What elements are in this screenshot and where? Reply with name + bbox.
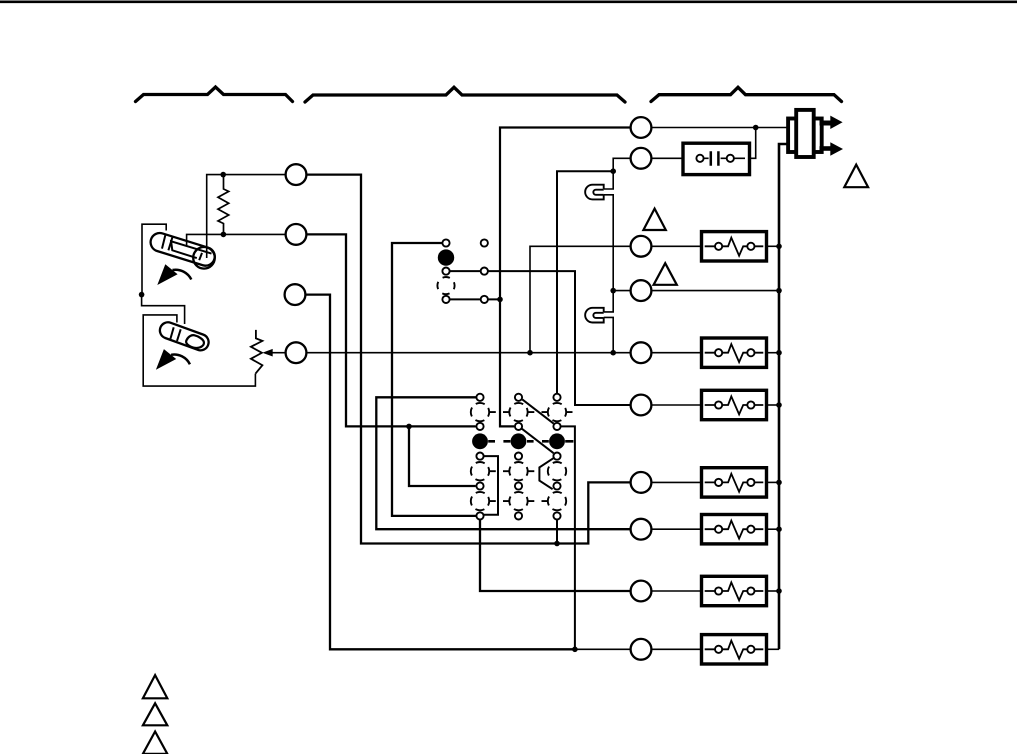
- bus junction coil 1: [776, 244, 782, 250]
- junction: anticipator top: [220, 172, 226, 178]
- page top rule: [0, 0, 1017, 3]
- terminal Y (left 2): [286, 224, 307, 245]
- wire: matrix col1 row1 to terminal 8: [376, 397, 630, 529]
- fan switch contact B1: [481, 239, 488, 246]
- fan switch rotor open (dashed): [437, 277, 454, 294]
- terminal R1: [631, 117, 652, 138]
- relay coil box 7: [702, 635, 767, 664]
- terminal R4: [631, 280, 652, 301]
- wire: col1 row9 down to terminal 9: [480, 520, 631, 592]
- terminal R7: [631, 472, 652, 493]
- wire: terminal 3 to pot net vertical: [530, 246, 631, 352]
- gang dashes row8: [490, 500, 548, 502]
- wire: mercury electrode to left terminal 2: [187, 234, 286, 246]
- relay coil box 1: [702, 232, 767, 261]
- wire: terminal 4 left lead: [613, 290, 630, 292]
- wire: coil 7 to bus corner: [767, 648, 780, 650]
- right supply bus: [779, 144, 788, 649]
- fan switch contact A3: [442, 296, 449, 303]
- wire: terminal R9 to coil 6: [652, 590, 702, 592]
- bus junction R4: [776, 288, 782, 294]
- bus junction coil 5: [776, 526, 782, 532]
- terminal R5: [631, 342, 652, 363]
- wire: col3 row3 right and down to bottom wire: [561, 426, 575, 649]
- potentiometer: setpoint resistor: [251, 330, 263, 374]
- arrow: heat bulb rotation: [157, 264, 191, 285]
- mercury switch: heat bulb: [148, 231, 217, 269]
- terminal RC (left 3): [285, 284, 306, 305]
- terminal R2: [631, 148, 652, 169]
- wire: lamp1 bottom lead down to t4 net: [604, 195, 614, 291]
- triangle note near terminal R3: [643, 209, 665, 230]
- terminal W (left 1): [286, 164, 307, 185]
- wire: coil 6 to bus: [767, 590, 780, 592]
- wire: coil 5 to bus: [767, 528, 780, 530]
- wire: col3 row9 down to fan net: [556, 520, 558, 544]
- bus junction coil 6: [776, 588, 782, 594]
- relay coil box 5: [702, 515, 767, 544]
- wire: lamp2 bottom lead down to pot net: [604, 317, 614, 352]
- indicator lamp 2 (cool): [585, 308, 604, 323]
- wire: branch down to matrix row7: [409, 426, 476, 486]
- gang dashes row2: [490, 411, 573, 413]
- wire: cap box output up: [750, 128, 756, 159]
- diagonal: col2 row3 to col3 row5: [522, 429, 554, 454]
- arrow: line voltage 1: [820, 116, 843, 129]
- junction: pot net tap: [527, 350, 533, 356]
- fan switch contact A1: [442, 239, 449, 246]
- indicator lamp 1 (heat): [585, 185, 604, 200]
- wire: terminal R1 to transformer: [652, 127, 789, 129]
- legend triangle 2: [143, 703, 167, 725]
- wire: terminal R7 to coil 4: [652, 481, 702, 483]
- wire: terminal R3 to coil 1: [652, 245, 702, 247]
- wire: coil 3 to bus: [767, 404, 780, 406]
- brace: system section: [651, 87, 842, 101]
- wire: coil 1 to bus: [767, 245, 780, 247]
- terminal R6: [631, 395, 652, 416]
- junction: pot net at lamp: [610, 350, 616, 356]
- relay coil box 2: [702, 338, 767, 367]
- system switch column 3 contacts: [548, 394, 566, 520]
- wire: terminal R1 down to matrix col2 row3: [500, 128, 631, 427]
- wire: cool bulb electrode from RC net: [142, 295, 185, 324]
- fan switch rotor closed: [438, 249, 454, 265]
- wire: fan row2 to terminal 6: [450, 271, 631, 405]
- wire: fan switch row1 feed from matrix col1 row9: [392, 243, 477, 516]
- terminal B (left 4, setpoint wiper): [286, 342, 307, 363]
- fan switch contact B2: [481, 268, 488, 275]
- gang dashes row6: [490, 470, 535, 472]
- relay coil box 3: [702, 390, 767, 419]
- wire: terminal R8 to coil 5: [652, 528, 702, 530]
- junction: cap box output on R1 wire: [753, 125, 759, 131]
- diagonal bent: col3 row5 to col3 row7: [539, 458, 553, 489]
- relay coil box 4: [702, 468, 767, 497]
- wire: cool bulb left electrode to pot bottom: [143, 315, 255, 386]
- terminal R9: [631, 581, 652, 602]
- terminal R8: [631, 519, 652, 540]
- junction: cool bulb net: [139, 292, 145, 298]
- system switch column 1 contacts: [471, 394, 489, 520]
- triangle note near transformer: [844, 165, 868, 188]
- wiper arrow into potentiometer: [272, 352, 286, 354]
- terminal R10: [631, 639, 652, 660]
- wire: col1 row5 to row9 bracket: [484, 456, 499, 515]
- wire: pot wiper to lamp/coil net: [307, 352, 631, 354]
- bus junction coil 3: [776, 402, 782, 408]
- wire: terminal 2 left lead: [613, 158, 630, 171]
- junction: t2 net split: [610, 168, 616, 174]
- junction: t4 net: [610, 288, 616, 294]
- wire: terminal R2 to cap box: [652, 157, 697, 159]
- resistor: heat anticipator: [218, 177, 229, 234]
- bus junction coil 4: [776, 480, 782, 486]
- junction: bottom wire to vertical: [572, 647, 578, 653]
- transformer: [788, 110, 822, 157]
- diagonal: col2 row1 to col3 row3: [522, 399, 553, 423]
- junction: col3 row9 on fan net wire: [554, 541, 560, 547]
- wire: left terminal 1 right lead down: [307, 175, 631, 544]
- wire: R wire to left terminal 1: [207, 175, 286, 258]
- arrow: line voltage 2: [820, 142, 844, 155]
- wire: terminal R5 to coil 2: [652, 352, 702, 354]
- brace: thermostat section: [136, 87, 293, 102]
- relay coil box 6: [702, 576, 767, 605]
- arrow: cool bulb rotation: [156, 349, 190, 370]
- wire: fan row3 to vertical 500: [450, 298, 500, 300]
- wire: terminal R10 to coil 7: [652, 648, 702, 650]
- fan switch contact B3: [481, 296, 488, 303]
- wire: coil 4 to bus: [767, 481, 780, 483]
- mercury switch: cool bulb: [158, 320, 211, 353]
- capacitor box: [683, 143, 750, 174]
- system switch column 2 contacts: [509, 394, 527, 520]
- wire: terminal R6 to coil 3: [652, 404, 702, 406]
- junction: anticipator bottom: [221, 232, 227, 238]
- fan switch contact A2: [442, 268, 449, 275]
- legend triangle 1: [143, 675, 167, 698]
- wire: lamp1 top lead: [604, 171, 614, 189]
- junction: fan row3 on vertical: [497, 297, 503, 303]
- wire: terminal R4 lead to bus: [652, 290, 780, 292]
- junction: row3 branch: [406, 424, 412, 430]
- wire: left terminal 3 right lead down to bottom wire: [306, 295, 575, 650]
- gang dashes row4 (rotor row): [488, 440, 573, 443]
- legend triangle 3: [143, 732, 167, 754]
- wire: heat bulb left electrode routing: [142, 224, 166, 294]
- wire: col3 row1 up to t2 net: [557, 171, 613, 394]
- wire: bottom wire to terminal 10: [575, 648, 631, 650]
- terminal R3: [631, 236, 652, 257]
- wire: lamp2 top lead: [604, 291, 614, 312]
- brace: subbase section: [305, 87, 625, 102]
- triangle note near terminal R4: [654, 263, 677, 285]
- bus junction coil 2: [776, 350, 782, 356]
- wire: coil 2 to bus: [767, 352, 780, 354]
- wire: left terminal 2 right lead down to matrix row3: [307, 234, 476, 426]
